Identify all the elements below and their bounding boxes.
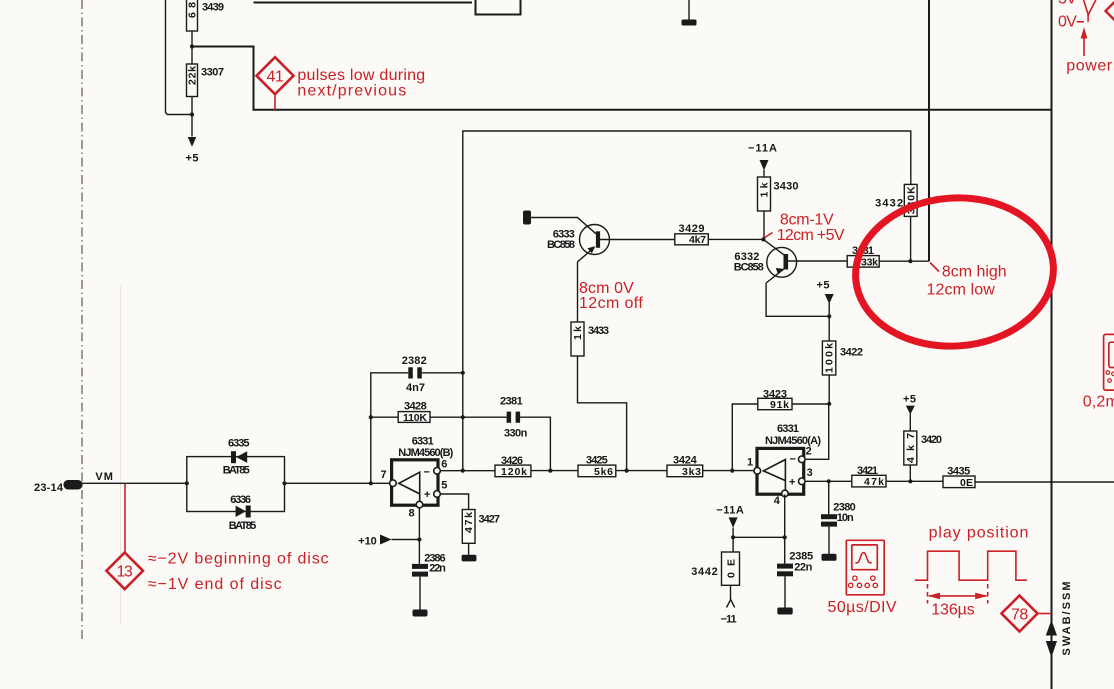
svg-text:3422: 3422 <box>840 347 863 359</box>
diode 6335 BAT85 <box>223 438 250 477</box>
svg-text:47k: 47k <box>864 476 884 488</box>
transistor 6332 BC858 <box>734 239 797 283</box>
wire 3423 right to feedback node <box>792 403 829 405</box>
svg-text:1: 1 <box>747 457 753 469</box>
svg-text:41: 41 <box>267 68 285 85</box>
svg-text:4: 4 <box>774 495 781 507</box>
junction node diode box left <box>185 481 189 485</box>
resistor 3427 <box>462 510 500 544</box>
svg-text:91k: 91k <box>770 399 789 411</box>
svg-text:+5: +5 <box>903 394 916 406</box>
red dashed measure lines <box>928 584 988 604</box>
wire 3424 to op-amp A pin1 <box>703 470 754 472</box>
resistor 3439 <box>187 0 225 31</box>
svg-text:+: + <box>789 476 795 488</box>
junction node diode box right <box>282 481 286 485</box>
red line to diamond 13 <box>124 484 126 553</box>
svg-text:2381: 2381 <box>500 396 523 408</box>
wire down to capacitor 2380 <box>828 481 830 514</box>
svg-text:120k: 120k <box>501 466 527 478</box>
vertical page wire x929 <box>928 0 930 261</box>
svg-text:NJM4560(A): NJM4560(A) <box>765 435 821 447</box>
red measure arrow 136us <box>928 593 988 619</box>
wire mid horizontal net with both vertical drops <box>463 131 911 471</box>
svg-text:≈−1V end of disc: ≈−1V end of disc <box>148 576 282 593</box>
svg-text:3426: 3426 <box>501 455 523 467</box>
wire pin3 output <box>805 480 852 482</box>
svg-text:47k: 47k <box>463 512 475 533</box>
vertical page border wire x1051 <box>1051 0 1053 689</box>
resistor 3428 <box>398 401 430 424</box>
svg-text:+5: +5 <box>186 153 199 165</box>
wire 6333 base to resistor 3429 <box>599 239 675 241</box>
svg-text:8cm-1V: 8cm-1V <box>780 211 834 228</box>
+5 supply arrow top-left <box>186 137 199 165</box>
wire below 3442 with off-page chevron <box>721 585 737 625</box>
svg-text:12cm low: 12cm low <box>927 282 996 299</box>
svg-text:3428: 3428 <box>404 401 427 413</box>
wire 2382 to right vertical <box>422 372 463 374</box>
svg-text:4k7: 4k7 <box>689 234 706 246</box>
resistor 3421 <box>852 465 886 488</box>
svg-text:1k: 1k <box>759 182 771 197</box>
svg-text:next/previous: next/previous <box>297 83 406 100</box>
ground below 2380 <box>822 527 837 561</box>
wire 3439 to node <box>191 31 193 64</box>
capacitor 2381 <box>500 396 528 440</box>
svg-text:12cm +5V: 12cm +5V <box>777 227 845 244</box>
svg-text:−11A: −11A <box>716 504 744 516</box>
svg-text:play position: play position <box>929 525 1029 542</box>
junction node 3420 <box>908 479 912 483</box>
resistor 3442 <box>691 552 739 585</box>
capacitor 2385 <box>777 551 813 577</box>
top box bottom edge wire <box>254 2 473 4</box>
svg-text:VM: VM <box>95 471 113 483</box>
svg-text:0V: 0V <box>1058 13 1077 30</box>
diode pair box <box>187 457 285 512</box>
wire 3425 to 3424 <box>616 470 667 472</box>
+5 supply arrow at 6332 emitter <box>817 280 834 342</box>
junction nodes -11A row <box>731 535 787 539</box>
red diamond 78 <box>1002 596 1052 632</box>
svg-text:6331: 6331 <box>412 435 434 447</box>
red note play position <box>929 525 1029 542</box>
junction nodes 3428 row <box>369 415 465 419</box>
red power waveform 3V/0V <box>1058 0 1096 30</box>
junction node pin6/vertical <box>461 469 465 473</box>
svg-text:136µs: 136µs <box>931 602 975 619</box>
svg-text:−: − <box>424 467 430 479</box>
svg-text:≈−2V beginning of disc: ≈−2V beginning of disc <box>148 551 329 568</box>
op-amp U6331A box <box>747 423 821 507</box>
connector 23-14 <box>34 471 113 494</box>
resistor 3423 <box>758 389 792 411</box>
op-amp U6331B box <box>381 435 454 519</box>
wire -11A row to pin4 <box>733 536 785 538</box>
svg-text:78: 78 <box>1011 606 1029 623</box>
ground stub top center <box>682 0 697 26</box>
red note 8cm 0V / 12cm off <box>579 280 643 312</box>
junction node feedback A <box>827 402 831 406</box>
svg-text:3439: 3439 <box>202 2 224 14</box>
svg-text:3435: 3435 <box>947 466 970 478</box>
junction node pin3/2380 <box>827 479 831 483</box>
resistor 3426 <box>495 455 531 478</box>
svg-text:BAT85: BAT85 <box>229 520 256 532</box>
svg-text:5: 5 <box>441 480 447 492</box>
wire pin6 output row <box>440 470 495 472</box>
diode 6336 BAT85 <box>229 494 256 532</box>
resistor 3430 <box>758 177 799 211</box>
wire pin8 down <box>418 508 420 564</box>
resistor 3425 <box>578 455 616 478</box>
wire 3421 to 3435 <box>886 480 943 482</box>
wire 3426 to 3425 <box>531 470 578 472</box>
capacitor 2382 <box>402 355 427 394</box>
svg-text:3429: 3429 <box>679 223 705 235</box>
wire 3433 down and over to signal chain <box>578 356 627 471</box>
resistor 3422 <box>822 341 863 375</box>
svg-text:power: power <box>1066 57 1112 74</box>
transistor 6333 BC858 <box>547 225 610 262</box>
wire 3430 to base node <box>763 211 765 239</box>
svg-text:3425: 3425 <box>586 455 608 467</box>
junction node 3433 drop <box>625 469 629 473</box>
svg-text:7: 7 <box>381 469 387 481</box>
wire VM input <box>80 482 187 484</box>
resistor 3307 <box>187 64 225 97</box>
svg-text:2382: 2382 <box>402 355 427 367</box>
faint scan artifact line <box>120 285 122 625</box>
ground below 2386 <box>413 577 428 617</box>
svg-text:100k: 100k <box>824 343 836 373</box>
junction node below 3307 <box>190 112 194 116</box>
wire 3420 down to node <box>909 465 911 481</box>
red square wave <box>915 551 1027 580</box>
red pointer to 8cm-1V note <box>765 211 845 244</box>
junction node 8cm-high <box>908 259 912 263</box>
junction node 2381 drop <box>548 469 552 473</box>
svg-text:13: 13 <box>117 564 134 581</box>
thick bus wire from node right and down to long horizontal bus <box>192 47 1052 110</box>
junction node 3423 drop <box>730 469 734 473</box>
red highlight ellipse <box>851 191 1059 352</box>
junction node 2382 right <box>461 371 465 375</box>
svg-text:4n7: 4n7 <box>406 382 425 394</box>
junction node pin8/+10 <box>417 537 421 541</box>
-11A supply arrow lower <box>716 504 744 552</box>
svg-text:BC858: BC858 <box>547 239 575 251</box>
svg-text:6336: 6336 <box>230 494 251 506</box>
svg-text:NJM4560(B): NJM4560(B) <box>398 447 453 459</box>
red oscilloscope icon right edge <box>1104 334 1114 390</box>
svg-text:6: 6 <box>441 459 447 471</box>
svg-text:23-14: 23-14 <box>34 482 64 494</box>
resistor 3429 <box>675 223 709 246</box>
svg-text:+: + <box>424 489 430 501</box>
svg-text:5k6: 5k6 <box>594 466 613 478</box>
svg-text:4k7: 4k7 <box>905 433 917 463</box>
svg-text:3432: 3432 <box>875 198 903 210</box>
+10 supply arrow <box>358 535 419 548</box>
wire 6332 collector to 3431 <box>788 260 847 262</box>
svg-text:3430: 3430 <box>774 181 799 193</box>
svg-text:33k: 33k <box>861 256 878 268</box>
ground below 3427 <box>462 543 477 561</box>
red pointer and note 8cm high / 12cm low <box>927 263 1007 299</box>
wire 3431 to node 8cm-high <box>879 260 929 262</box>
svg-text:8cm high: 8cm high <box>942 263 1007 280</box>
wire pin4 down to 2385 <box>784 495 786 564</box>
svg-text:SWAB/SSM: SWAB/SSM <box>1061 582 1073 656</box>
wire 3307 to lower node <box>191 97 193 137</box>
wire pin5 to 3427 <box>440 494 468 510</box>
red label 0,2m <box>1083 394 1114 411</box>
svg-text:22n: 22n <box>794 561 812 573</box>
board boundary dash-dot line <box>81 0 83 641</box>
svg-text:−11A: −11A <box>748 143 777 155</box>
resistor 3420 <box>904 431 942 465</box>
feedback left vertical wire <box>371 373 409 484</box>
junction node base of 6332 <box>761 237 765 241</box>
red diamond partial top right <box>1106 1 1114 21</box>
wire diode box to op-amp B pin7 <box>285 482 390 484</box>
svg-text:+5: +5 <box>817 280 830 292</box>
svg-text:6335: 6335 <box>228 438 250 450</box>
resistor 3431 <box>847 245 879 268</box>
svg-text:3442: 3442 <box>691 566 718 578</box>
red diamond 41 <box>257 57 294 110</box>
svg-text:3420: 3420 <box>921 434 942 446</box>
svg-text:8: 8 <box>409 508 415 520</box>
svg-text:3424: 3424 <box>673 455 698 467</box>
svg-text:+10: +10 <box>358 536 377 548</box>
wire 6333 emitter down to 3433 <box>577 262 579 322</box>
resistor 3433 <box>571 322 609 356</box>
svg-text:10n: 10n <box>837 512 854 524</box>
wire top-left vertical from top edge <box>166 0 193 115</box>
resistor 3424 <box>667 455 703 478</box>
svg-text:−11: −11 <box>721 614 737 626</box>
red arrow power <box>1066 27 1112 74</box>
svg-text:0,2m: 0,2m <box>1083 394 1114 411</box>
svg-text:3423: 3423 <box>763 389 787 401</box>
red label 50us/DIV <box>828 599 897 616</box>
wire feedback node down to pin2 <box>805 404 829 460</box>
svg-text:12cm off: 12cm off <box>579 295 643 312</box>
red diamond 13 <box>106 553 143 590</box>
svg-text:330n: 330n <box>504 428 528 440</box>
wire 2381 row <box>463 417 551 470</box>
ground below 2385 <box>777 576 792 614</box>
red oscilloscope icon 50us <box>846 540 884 595</box>
svg-text:22k: 22k <box>187 66 199 85</box>
svg-text:50µs/DIV: 50µs/DIV <box>828 599 897 616</box>
svg-text:22n: 22n <box>429 563 446 575</box>
capacitor 2386 <box>412 553 446 577</box>
svg-text:3427: 3427 <box>479 514 501 526</box>
resistor 3435 <box>943 466 975 489</box>
base terminal tab of 6333 <box>523 211 531 225</box>
capacitor 2380 <box>821 502 856 527</box>
wire 3422 to feedback node <box>828 375 830 404</box>
svg-text:3k3: 3k3 <box>682 466 701 478</box>
svg-text:3307: 3307 <box>201 67 224 79</box>
svg-text:110K: 110K <box>403 412 427 424</box>
top box corner (IC outline cut at top) <box>476 0 521 15</box>
wire 3428 row <box>371 416 463 418</box>
svg-text:2: 2 <box>806 445 812 457</box>
resistor 3432 <box>875 184 917 216</box>
svg-text:3V: 3V <box>1058 0 1077 8</box>
svg-text:3: 3 <box>807 467 813 479</box>
wire 3429 to base node of 6332 <box>708 238 763 240</box>
net label SWAB/SSM <box>1061 582 1073 656</box>
svg-text:0E: 0E <box>960 477 973 489</box>
junction node emitter/+5 <box>827 314 831 318</box>
svg-text:BC858: BC858 <box>734 262 764 274</box>
wire 3423 left leg down to pin1 net <box>732 404 758 471</box>
wire 3432 to node <box>910 216 912 261</box>
svg-text:1k: 1k <box>572 326 584 340</box>
junction node below 3439 <box>190 44 194 48</box>
red note -2V beginning / -1V end <box>148 551 329 594</box>
+5 supply arrow above 3420 <box>903 394 916 432</box>
junction node feedback tap <box>369 481 373 485</box>
svg-text:3421: 3421 <box>857 465 878 477</box>
svg-text:3433: 3433 <box>588 325 609 337</box>
svg-text:pulses low during: pulses low during <box>297 67 425 84</box>
svg-text:0E: 0E <box>726 559 738 578</box>
svg-text:6331: 6331 <box>777 423 799 435</box>
svg-text:BAT85: BAT85 <box>223 464 250 476</box>
-11A supply arrow above 3430 <box>748 143 777 178</box>
wire 3435 to right edge <box>975 481 1114 483</box>
wire terminal to transistor 6333 <box>531 218 596 234</box>
black double arrows on border wire <box>1046 620 1057 658</box>
wire 6332 emitter down to +5 node <box>766 283 829 316</box>
red note pulses low during next/previous <box>297 67 425 100</box>
svg-text:−: − <box>790 454 796 466</box>
